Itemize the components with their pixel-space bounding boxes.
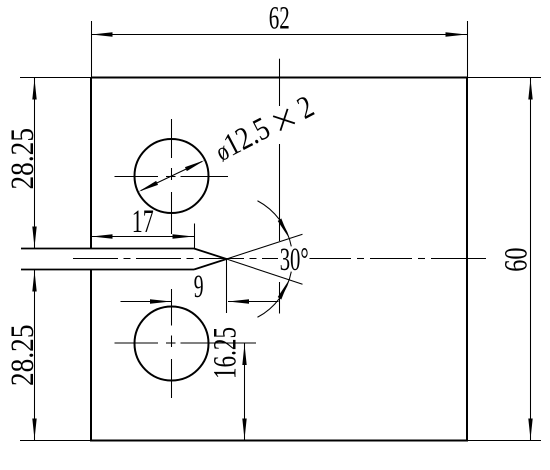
dimension 60 top arrow	[528, 79, 532, 100]
notch chamfer lower	[194, 259, 227, 270]
diameter leader line inside hole H1	[141, 162, 202, 191]
diameter leader lower-left arrow	[138, 181, 158, 192]
angle 30 deg arc upper segment	[257, 201, 291, 247]
dimension 28.25 lower top arrow	[32, 271, 36, 292]
dimension 9 line left part	[121, 301, 172, 303]
dimension 28.25 upper line	[34, 78, 36, 249]
dimension 62 line	[91, 34, 467, 36]
hole H1 upper circle	[135, 139, 209, 213]
dimension 60 extension line top	[467, 77, 541, 79]
svg-text:28.25: 28.25	[5, 128, 41, 190]
dimension 62 left arrow	[92, 32, 113, 36]
dimension 62 right arrow	[446, 32, 467, 36]
specimen outline top edge	[91, 77, 467, 79]
hole H2 horizontal centerline	[115, 342, 257, 344]
dimension 62 text	[269, 1, 290, 37]
dimension 9 line right part	[228, 301, 279, 303]
dimension 17 right arrow	[173, 234, 194, 238]
specimen outline left edge upper segment	[90, 78, 92, 249]
hole H2 lower circle	[135, 307, 209, 381]
svg-text:62: 62	[269, 1, 290, 37]
dimension 60 line	[530, 78, 532, 441]
svg-text:2: 2	[291, 88, 319, 126]
dimension 28.25 lower text	[5, 325, 41, 387]
dimension 17 left arrow	[92, 234, 113, 238]
dimension 62 extension line right	[467, 21, 469, 78]
svg-text:9: 9	[194, 269, 204, 305]
dimension 60 text	[499, 247, 535, 271]
angle 30 deg text	[280, 242, 309, 278]
dimension 9 extension line below tip	[226, 259, 228, 313]
dimension 28.25 upper text	[5, 128, 41, 190]
angle 30 deg line lower	[227, 259, 303, 284]
dimension 9 right arrow	[228, 299, 249, 303]
specimen outline left edge lower segment	[90, 270, 92, 442]
svg-text:16.25: 16.25	[208, 327, 244, 379]
diameter leader upper-right arrow	[185, 160, 205, 171]
dimension 17 extension line at slot end	[194, 224, 196, 249]
svg-text:17: 17	[132, 204, 154, 240]
notch slot bottom line	[21, 269, 194, 271]
dimension 28.25 lower bottom arrow	[32, 419, 36, 440]
dimension 62 extension line left	[91, 21, 93, 78]
svg-text:30°: 30°	[280, 242, 309, 278]
dimension 9 left arrow	[150, 299, 171, 303]
dimension 16.25 top arrow	[242, 344, 246, 365]
angle 30 deg arc lower segment	[257, 272, 291, 318]
hole H2 vertical centerline	[171, 289, 173, 398]
dimension 28.25 upper bottom arrow	[32, 227, 36, 248]
angle 30 deg arc lower arrow	[278, 280, 289, 300]
dimension 60 extension line bottom	[467, 440, 541, 442]
dimension 16.25 text	[208, 327, 244, 379]
dimension 60 bottom arrow	[528, 419, 532, 440]
angle 30 deg line upper	[227, 234, 303, 259]
dimension 28.25 lower line	[34, 270, 36, 441]
angle 30 deg arc upper arrow	[278, 218, 289, 238]
svg-text:28.25: 28.25	[5, 325, 41, 387]
specimen outline bottom edge	[91, 440, 467, 442]
dimension dia 12.5 x 2 text	[208, 88, 319, 168]
dimension 28.25 lower extension line bottom edge	[20, 440, 91, 442]
vertical centerline upper segment	[279, 59, 281, 106]
hole H1 horizontal centerline	[115, 176, 229, 178]
vertical centerline lower segment	[279, 282, 281, 314]
hole H1 vertical centerline	[171, 119, 173, 234]
dimension 28.25 upper extension line top edge	[20, 77, 91, 79]
dimension 17 line	[91, 236, 194, 238]
horizontal centerline right of 30 deg text	[310, 258, 487, 260]
dimension 16.25 line	[244, 343, 246, 441]
horizontal centerline left of 30 deg text	[73, 258, 278, 260]
notch slot top line	[21, 248, 194, 250]
vertical centerline middle segment	[279, 144, 281, 241]
svg-text:60: 60	[499, 247, 535, 271]
dimension 17 text	[132, 204, 154, 240]
dimension 16.25 bottom arrow	[242, 419, 246, 440]
dimension 9 text	[194, 269, 204, 305]
svg-text:ø12.5: ø12.5	[208, 109, 275, 167]
notch chamfer upper	[194, 249, 227, 260]
dimension 28.25 upper top arrow	[32, 79, 36, 100]
specimen outline right edge	[466, 77, 468, 442]
